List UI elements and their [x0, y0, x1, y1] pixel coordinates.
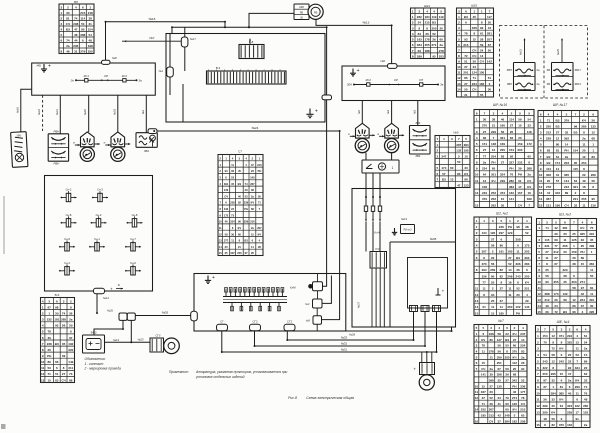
svg-text:15: 15	[539, 203, 543, 207]
svg-text:80: 80	[556, 143, 560, 147]
wire N20 drop	[88, 95, 90, 132]
svg-text:20: 20	[225, 245, 228, 249]
svg-text:83: 83	[592, 155, 596, 159]
svg-text:115: 115	[573, 167, 578, 171]
svg-text:Сн-1: Сн-1	[94, 237, 100, 241]
svg-text:27: 27	[490, 384, 494, 388]
svg-text:248: 248	[505, 414, 510, 418]
table ShE4 bottom-right pin table	[536, 326, 591, 428]
svg-text:11: 11	[219, 226, 222, 230]
svg-text:326: 326	[482, 274, 487, 278]
svg-text:284: 284	[551, 391, 556, 395]
svg-text:15: 15	[518, 124, 522, 128]
svg-text:5: 5	[540, 143, 542, 147]
svg-text:64: 64	[560, 404, 564, 408]
svg-text:Сн-6: Сн-6	[130, 261, 136, 265]
svg-text:8: 8	[552, 340, 554, 344]
svg-text:1: 1	[42, 305, 44, 309]
svg-text:1: 1	[476, 225, 478, 229]
svg-text:2: 2	[42, 312, 44, 316]
svg-text:№7: №7	[149, 36, 154, 40]
dashed divider	[543, 26, 545, 99]
svg-text:КЧ: КЧ	[551, 411, 555, 415]
svg-text:5: 5	[537, 360, 539, 364]
wire machine conn drops	[413, 312, 415, 341]
svg-text:РИ №3: РИ №3	[404, 229, 413, 232]
svg-text:12: 12	[556, 137, 560, 141]
svg-text:3б: 3б	[543, 398, 547, 402]
wire vertical V1	[326, 27, 328, 95]
svg-text:3: 3	[458, 9, 460, 13]
svg-text:1: 1	[476, 219, 478, 223]
svg-text:381: 381	[562, 226, 567, 230]
svg-text:13: 13	[536, 411, 540, 415]
svg-text:44: 44	[74, 38, 78, 42]
svg-text:21: 21	[238, 245, 241, 249]
svg-text:24: 24	[498, 396, 502, 400]
svg-text:СЧ: СЧ	[527, 179, 531, 183]
svg-text:2а: 2а	[521, 355, 525, 359]
svg-text:4: 4	[582, 220, 584, 224]
svg-text:208: 208	[507, 274, 512, 278]
svg-text:20: 20	[581, 244, 585, 248]
connector N17 oval	[181, 37, 188, 47]
svg-text:55: 55	[480, 93, 484, 97]
svg-text:30А: 30А	[347, 83, 352, 87]
svg-text:36: 36	[69, 312, 73, 316]
svg-text:68: 68	[592, 137, 596, 141]
svg-text:47: 47	[74, 27, 78, 31]
svg-text:216: 216	[250, 220, 255, 224]
svg-text:+: +	[110, 287, 113, 292]
svg-text:69: 69	[554, 238, 558, 242]
svg-text:№22: №22	[37, 109, 41, 115]
svg-text:2а: 2а	[584, 423, 588, 427]
three-phase switch KlCh	[364, 197, 381, 219]
svg-text:118: 118	[527, 130, 532, 134]
svg-text:1: 1	[473, 9, 475, 13]
svg-text:89: 89	[565, 191, 569, 195]
svg-text:37: 37	[482, 396, 486, 400]
svg-text:РН: РН	[508, 225, 512, 229]
svg-text:11: 11	[483, 287, 487, 291]
svg-text:№21: №21	[55, 109, 59, 115]
svg-text:388: 388	[527, 167, 532, 171]
svg-text:24: 24	[418, 21, 422, 25]
svg-text:221: 221	[524, 287, 529, 291]
svg-text:396: 396	[515, 262, 520, 266]
svg-text:289: 289	[542, 404, 547, 408]
svg-text:55: 55	[501, 203, 505, 207]
relay RzCh	[370, 252, 387, 269]
svg-text:52: 52	[516, 287, 520, 291]
svg-text:388: 388	[80, 33, 85, 37]
svg-text:370: 370	[559, 423, 564, 427]
svg-text:25: 25	[491, 281, 495, 285]
svg-text:95: 95	[592, 197, 596, 201]
svg-text:20: 20	[440, 26, 444, 30]
svg-text:228: 228	[230, 201, 235, 205]
svg-text:64: 64	[574, 179, 578, 183]
svg-text:2: 2	[492, 287, 494, 291]
svg-text:21: 21	[464, 93, 468, 97]
svg-text:СЧ: СЧ	[489, 419, 493, 423]
svg-text:339: 339	[527, 197, 532, 201]
svg-text:307: 307	[489, 408, 494, 412]
svg-text:71: 71	[473, 76, 477, 80]
svg-text:86: 86	[464, 178, 468, 182]
svg-text:58: 58	[572, 286, 576, 290]
svg-text:215: 215	[80, 11, 85, 15]
svg-text:КЧ: КЧ	[512, 332, 516, 336]
svg-text:+: +	[212, 275, 215, 281]
svg-text:6: 6	[540, 112, 542, 116]
wire N18 top	[106, 22, 226, 61]
svg-text:211: 211	[68, 366, 73, 370]
svg-text:7: 7	[489, 9, 491, 13]
svg-text:278: 278	[546, 185, 551, 189]
svg-text:20: 20	[563, 232, 567, 236]
svg-text:42: 42	[581, 292, 585, 296]
svg-text:132: 132	[456, 149, 461, 153]
svg-text:321: 321	[500, 136, 505, 140]
svg-text:7: 7	[538, 262, 540, 266]
svg-text:ВЗ: ВЗ	[546, 161, 550, 165]
svg-text:70: 70	[543, 340, 547, 344]
svg-text:3: 3	[412, 26, 414, 30]
svg-text:3: 3	[538, 238, 540, 242]
svg-text:15: 15	[251, 232, 254, 236]
svg-text:307: 307	[482, 250, 487, 254]
svg-text:253: 253	[439, 54, 444, 58]
machine M inner box	[408, 258, 448, 309]
svg-text:7: 7	[573, 220, 575, 224]
svg-text:СЧ: СЧ	[472, 87, 476, 91]
svg-text:38: 38	[251, 188, 254, 192]
svg-text:271: 271	[431, 43, 436, 47]
svg-text:48: 48	[584, 398, 588, 402]
svg-text:6: 6	[465, 9, 467, 13]
svg-text:95: 95	[251, 251, 254, 255]
svg-text:327: 327	[509, 160, 514, 164]
svg-text:37: 37	[581, 304, 585, 308]
svg-text:93: 93	[480, 26, 484, 30]
svg-text:3б: 3б	[55, 312, 59, 316]
svg-text:ВЗ: ВЗ	[573, 131, 577, 135]
svg-text:377: 377	[224, 239, 229, 243]
svg-text:1: 1	[573, 244, 575, 248]
svg-text:61: 61	[518, 179, 522, 183]
svg-text:60: 60	[505, 402, 509, 406]
svg-text:8: 8	[552, 366, 554, 370]
svg-text:№13: №13	[401, 217, 407, 221]
svg-text:№16: №16	[15, 107, 19, 113]
svg-text:74: 74	[245, 182, 248, 186]
svg-text:№2: №2	[141, 109, 145, 114]
svg-text:205: 205	[524, 274, 529, 278]
svg-text:1: 1	[509, 219, 511, 223]
svg-text:67: 67	[48, 305, 52, 309]
svg-text:+: +	[357, 68, 360, 74]
svg-text:28: 28	[572, 262, 576, 266]
svg-text:11: 11	[475, 390, 479, 394]
svg-text:55: 55	[505, 344, 509, 348]
svg-text:205: 205	[505, 355, 510, 359]
svg-text:1 - контакт: 1 - контакт	[85, 362, 104, 366]
svg-text:6: 6	[561, 353, 563, 357]
svg-text:12: 12	[539, 185, 543, 189]
svg-text:119: 119	[439, 15, 444, 19]
svg-text:255: 255	[88, 49, 93, 53]
svg-text:192: 192	[68, 342, 73, 346]
svg-text:82: 82	[500, 274, 504, 278]
svg-text:99: 99	[574, 125, 578, 129]
switch chain in A3	[354, 84, 438, 86]
svg-text:154: 154	[509, 148, 514, 152]
svg-text:3: 3	[42, 318, 44, 322]
svg-text:60: 60	[513, 344, 517, 348]
svg-text:266: 266	[583, 404, 588, 408]
svg-text:РВН: РВН	[54, 161, 61, 165]
svg-text:172: 172	[527, 142, 532, 146]
svg-text:2: 2	[514, 326, 516, 330]
wire N14 drop	[96, 294, 98, 313]
svg-text:КЧ: КЧ	[525, 281, 529, 285]
svg-text:9: 9	[537, 385, 539, 389]
svg-text:35: 35	[62, 342, 66, 346]
svg-text:5: 5	[482, 326, 484, 330]
svg-text:41: 41	[498, 402, 502, 406]
svg-text:РБ: РБ	[314, 10, 318, 14]
svg-text:14: 14	[556, 167, 560, 171]
svg-text:25: 25	[498, 379, 502, 383]
svg-text:№33: №33	[341, 335, 348, 339]
svg-text:343: 343	[542, 360, 547, 364]
svg-text:308: 308	[515, 237, 520, 241]
svg-text:162: 162	[509, 191, 514, 195]
svg-text:+: +	[48, 64, 51, 70]
svg-text:392: 392	[564, 137, 569, 141]
svg-text:4: 4	[476, 350, 478, 354]
svg-text:90: 90	[81, 27, 85, 31]
svg-text:39: 39	[490, 373, 494, 377]
wire N7 into A2	[122, 40, 181, 42]
svg-text:7: 7	[575, 112, 577, 116]
svg-text:74: 74	[62, 312, 66, 316]
svg-text:183: 183	[479, 82, 484, 86]
wire to ZVR	[561, 39, 563, 63]
svg-text:ВЗ: ВЗ	[555, 125, 559, 129]
wire V2	[322, 276, 331, 304]
svg-text:7: 7	[476, 367, 478, 371]
svg-text:324: 324	[567, 404, 572, 408]
wire N13 from RB	[316, 20, 392, 64]
svg-text:82: 82	[483, 136, 487, 140]
svg-text:14: 14	[480, 54, 484, 58]
svg-text:29: 29	[525, 299, 529, 303]
svg-text:56: 56	[592, 179, 596, 183]
svg-text:4: 4	[540, 137, 542, 141]
svg-text:160: 160	[500, 124, 505, 128]
svg-text:7: 7	[458, 48, 460, 52]
svg-text:212: 212	[544, 298, 549, 302]
svg-text:эг: эг	[73, 142, 75, 145]
svg-text:67: 67	[554, 262, 558, 266]
svg-text:16: 16	[508, 281, 512, 285]
svg-text:269: 269	[591, 173, 596, 177]
svg-text:4: 4	[245, 157, 247, 161]
svg-text:12: 12	[552, 360, 556, 364]
svg-text:3: 3	[239, 157, 241, 161]
svg-text:СЧ: СЧ	[61, 378, 65, 382]
svg-text:6: 6	[232, 226, 234, 230]
svg-text:391: 391	[224, 182, 229, 186]
block A2 dash box	[166, 34, 325, 123]
svg-text:50: 50	[464, 87, 468, 91]
svg-text:РН: РН	[47, 354, 51, 358]
svg-text:44: 44	[488, 26, 492, 30]
svg-text:20: 20	[488, 21, 492, 25]
svg-text:39: 39	[48, 336, 52, 340]
svg-text:Примечание:: Примечание:	[169, 370, 189, 374]
svg-text:388: 388	[544, 292, 549, 296]
wire KlCh to RzCh	[365, 222, 367, 252]
svg-text:76: 76	[510, 173, 514, 177]
table N3 right pin table	[537, 219, 597, 315]
svg-text:90: 90	[545, 280, 549, 284]
svg-text:5: 5	[476, 250, 478, 254]
option unit ZVR	[552, 63, 574, 91]
svg-text:КЧ: КЧ	[582, 118, 586, 122]
svg-text:6: 6	[225, 176, 227, 180]
svg-text:СЧ: СЧ	[564, 203, 568, 207]
svg-text:4: 4	[537, 353, 539, 357]
svg-text:3: 3	[561, 328, 563, 332]
svg-text:27: 27	[556, 131, 560, 135]
svg-text:15: 15	[491, 311, 495, 315]
svg-text:1: 1	[592, 143, 594, 147]
svg-text:6: 6	[465, 21, 467, 25]
horn SGU	[150, 338, 164, 352]
svg-text:385: 385	[559, 391, 564, 395]
svg-text:58: 58	[552, 353, 556, 357]
svg-text:16: 16	[475, 419, 479, 423]
svg-text:№23: №23	[138, 338, 144, 342]
svg-text:2: 2	[517, 219, 519, 223]
svg-text:10: 10	[219, 220, 222, 224]
svg-text:15: 15	[536, 423, 540, 427]
svg-text:379: 379	[482, 197, 487, 201]
svg-text:№37: №37	[357, 302, 361, 308]
svg-text:Сн-8: Сн-8	[66, 213, 72, 217]
svg-text:71: 71	[48, 372, 52, 376]
svg-text:№1: №1	[159, 69, 164, 73]
svg-text:243: 243	[564, 185, 569, 189]
svg-text:+: +	[442, 289, 445, 294]
connector N6 on A3 top	[388, 64, 398, 69]
svg-text:358: 358	[497, 373, 502, 377]
svg-text:11: 11	[231, 239, 234, 243]
headlamp EL2	[111, 132, 125, 147]
svg-text:20: 20	[584, 366, 588, 370]
svg-text:6: 6	[537, 366, 539, 370]
svg-text:83: 83	[521, 350, 525, 354]
svg-text:КЧ: КЧ	[559, 347, 563, 351]
svg-text:129: 129	[507, 231, 512, 235]
svg-text:59: 59	[480, 43, 484, 47]
svg-text:2 - маркировка провода: 2 - маркировка провода	[84, 367, 122, 371]
svg-text:11: 11	[475, 287, 479, 291]
svg-text:96: 96	[238, 220, 241, 224]
svg-text:№9: №9	[306, 319, 311, 323]
svg-text:8: 8	[70, 305, 72, 309]
svg-text:3: 3	[546, 220, 548, 224]
svg-text:№35: №35	[162, 311, 169, 315]
svg-text:67: 67	[245, 251, 248, 255]
svg-text:142: 142	[487, 60, 492, 64]
svg-text:8: 8	[418, 26, 420, 30]
svg-text:8: 8	[412, 54, 414, 58]
wire N23b drop	[145, 95, 147, 133]
svg-text:173: 173	[553, 292, 558, 296]
headlamp EL3	[356, 123, 370, 138]
svg-text:КЧ: КЧ	[575, 379, 579, 383]
svg-text:35: 35	[225, 251, 228, 255]
svg-text:СЧ: СЧ	[472, 54, 476, 58]
svg-text:53: 53	[231, 176, 234, 180]
svg-text:5: 5	[465, 137, 467, 141]
svg-text:84: 84	[510, 136, 514, 140]
svg-text:290: 290	[542, 411, 547, 415]
svg-text:3б: 3б	[231, 232, 234, 236]
svg-text:11: 11	[536, 398, 540, 402]
svg-text:68: 68	[513, 373, 517, 377]
relay RI N3 box	[401, 225, 415, 234]
svg-text:83: 83	[500, 268, 504, 272]
junction dots	[224, 21, 226, 23]
svg-text:174: 174	[441, 166, 446, 170]
motor connector X4	[420, 363, 435, 375]
svg-text:312: 312	[553, 250, 558, 254]
svg-text:27: 27	[505, 379, 509, 383]
stacked connectors right of A5	[308, 284, 313, 289]
svg-text:66: 66	[572, 304, 576, 308]
ground mid chassis	[306, 109, 313, 118]
svg-text:4: 4	[75, 5, 77, 9]
svg-text:59: 59	[518, 118, 522, 122]
svg-text:291: 291	[589, 232, 594, 236]
svg-text:174: 174	[555, 161, 560, 165]
svg-text:Зг: Зг	[118, 283, 121, 287]
svg-text:3б: 3б	[491, 293, 495, 297]
svg-text:8: 8	[537, 379, 539, 383]
svg-text:РН: РН	[258, 169, 262, 173]
svg-text:255: 255	[581, 197, 586, 201]
svg-text:252: 252	[491, 191, 496, 195]
svg-text:20: 20	[582, 149, 586, 153]
svg-text:94: 94	[521, 367, 525, 371]
svg-text:151: 151	[482, 142, 487, 146]
svg-text:ВЗ: ВЗ	[66, 27, 70, 31]
svg-text:24: 24	[480, 48, 484, 52]
svg-text:185: 185	[499, 311, 504, 315]
svg-text:141: 141	[481, 373, 486, 377]
svg-text:15: 15	[219, 251, 222, 255]
svg-text:54: 54	[543, 353, 547, 357]
svg-text:17: 17	[518, 185, 522, 189]
svg-text:33: 33	[528, 124, 532, 128]
svg-text:ЗВ17: ЗВ17	[575, 68, 582, 72]
